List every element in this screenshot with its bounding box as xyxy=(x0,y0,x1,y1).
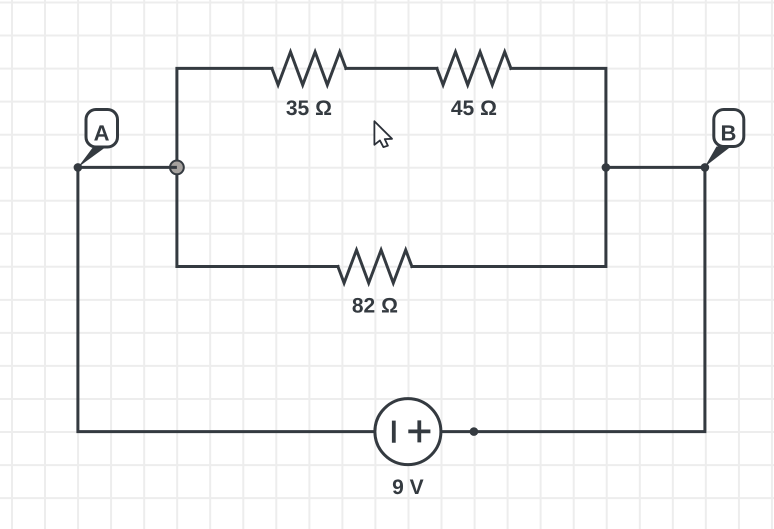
svg-text:35 Ω: 35 Ω xyxy=(286,97,332,120)
svg-text:A: A xyxy=(94,120,110,145)
svg-text:9 V: 9 V xyxy=(392,476,424,499)
svg-text:82 Ω: 82 Ω xyxy=(352,295,398,318)
svg-text:45 Ω: 45 Ω xyxy=(451,97,497,120)
svg-text:B: B xyxy=(720,120,736,145)
